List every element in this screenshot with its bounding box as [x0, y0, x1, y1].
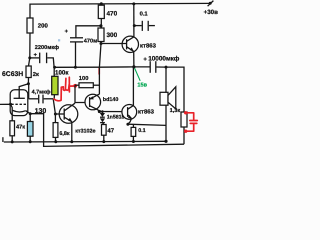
svg-text:+30в: +30в: [204, 9, 218, 16]
node cathode: [29, 112, 32, 115]
resistor 470: [98, 4, 117, 28]
node ground 6,8k: [54, 140, 57, 143]
tube triode 6C63N: [10, 84, 30, 116]
node ground kt3102 emitter: [70, 140, 73, 143]
red annotation potentiometer squiggle: [54, 68, 99, 100]
red annotation capacitor parallel 1,3k: [184, 111, 197, 133]
wire divider down to bd140 emitter: [99, 44, 101, 95]
node 470m to output wire: [74, 66, 77, 69]
resistor 200: [27, 18, 48, 33]
node anode supply junction: [28, 56, 31, 59]
wire collector kt863-1: [133, 4, 135, 37]
resistor 100: [75, 75, 99, 88]
svg-text:0.1: 0.1: [138, 128, 146, 134]
svg-text:кт863: кт863: [140, 42, 157, 49]
resistor 130 cathode (cyan): [27, 108, 46, 142]
node ground 0.1: [132, 140, 135, 143]
svg-text:кт863: кт863: [138, 108, 155, 115]
node speaker branch: [165, 66, 168, 69]
wire bd140 collector to kt863-2 base: [99, 111, 127, 113]
transistor kt863 #2: [122, 67, 155, 124]
capacitor 4,7mkf: [29, 85, 54, 103]
capacitor 470m bootstrap: [65, 24, 103, 67]
node 2200 side: [53, 66, 56, 69]
wire feedback cathode: [30, 114, 184, 147]
wire emitter to speaker return: [128, 124, 166, 125]
speaker: [160, 67, 176, 141]
node ground 130: [29, 140, 32, 143]
svg-text:+: +: [143, 57, 147, 63]
stray blue speck: [58, 39, 60, 41]
resistor 1,3k: [170, 108, 187, 144]
svg-text:1n5818: 1n5818: [107, 115, 125, 121]
diodes 1n5818: [100, 110, 125, 124]
resistor 6,8k: [53, 114, 70, 142]
svg-text:470: 470: [107, 10, 118, 17]
resistor 47k: [10, 104, 25, 142]
svg-text:200: 200: [38, 23, 49, 30]
svg-text:1,3к: 1,3к: [170, 108, 181, 114]
svg-text:470м: 470м: [84, 38, 97, 44]
resistor 300: [98, 28, 118, 44]
capacitor 10000mkf output: [143, 56, 179, 73]
svg-text:bd140: bd140: [103, 97, 119, 103]
wire output to right column: [166, 67, 184, 112]
svg-text:47: 47: [107, 127, 114, 134]
wire 200 to 2k: [29, 33, 31, 66]
resistor 2k: [26, 66, 39, 84]
node divider junction: [100, 42, 103, 45]
svg-text:15в: 15в: [137, 82, 147, 88]
svg-text:кт3102е: кт3102е: [75, 129, 95, 135]
svg-text:47к: 47к: [16, 125, 25, 131]
capacitor 0.1 top: [135, 10, 155, 31]
svg-text:300: 300: [107, 32, 118, 39]
svg-text:6,8к: 6,8к: [59, 131, 69, 137]
svg-text:2к: 2к: [33, 71, 39, 78]
node base kt3102: [54, 113, 57, 116]
green annotation 15v: [135, 68, 148, 88]
wire bottom ground rail: [3, 137, 166, 142]
resistor 100k (green): [52, 67, 70, 98]
resistor 0.1 emitter: [131, 124, 146, 141]
capacitor 2200mkf: [30, 44, 59, 67]
node output: [132, 65, 135, 68]
resistor 47: [102, 125, 115, 142]
node grid input: [9, 103, 12, 106]
transistor bd140: [85, 94, 118, 111]
svg-text:2200мкф: 2200мкф: [35, 44, 59, 51]
terminal +30v: [204, 1, 218, 16]
svg-text:4,7мкф: 4,7мкф: [32, 89, 51, 95]
wire cap node to base node: [53, 99, 55, 114]
svg-text:100: 100: [79, 75, 89, 82]
svg-text:10000мкф: 10000мкф: [148, 56, 180, 63]
node 0.1 branch: [133, 24, 136, 27]
transistor kt863 #1: [101, 36, 157, 52]
node rail collector kt863-1: [132, 2, 135, 5]
transistor kt3102e: [55, 103, 95, 141]
wire node A down to bd140 base: [75, 85, 85, 102]
node ground 47k: [11, 140, 14, 143]
node rail 470: [100, 2, 103, 5]
svg-text:0.1: 0.1: [140, 10, 149, 17]
node kt863-2 emitter: [126, 123, 129, 126]
wire emitter kt863-1 to output: [133, 51, 135, 67]
wire top supply rail: [30, 3, 210, 18]
node anode: [27, 82, 30, 85]
wire output node horizontal: [54, 66, 150, 68]
svg-text:6С63Н: 6С63Н: [2, 71, 23, 78]
node ground speaker: [164, 140, 167, 143]
wire input to grid: [0, 103, 11, 105]
svg-text:100к: 100к: [55, 70, 69, 77]
node ground 47: [102, 140, 105, 143]
node bd140 collector: [98, 110, 101, 113]
